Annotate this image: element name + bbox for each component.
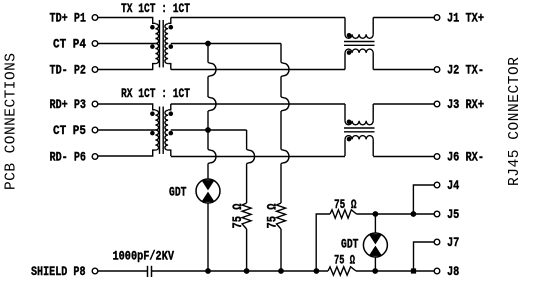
svg-text:75 Ω: 75 Ω bbox=[334, 253, 355, 268]
junction node RX-CT / rail A bbox=[205, 127, 211, 133]
wire J7 stub bbox=[414, 242, 435, 271]
svg-text:GDT: GDT bbox=[169, 185, 187, 200]
pin label J5 bbox=[447, 207, 459, 222]
wire top lead out of T1-TX secondary bbox=[168, 18, 171, 24]
terminal P6 bbox=[92, 154, 98, 160]
junction node R1 / ground bbox=[244, 268, 250, 274]
pin label TD+ P1 bbox=[50, 11, 87, 26]
svg-text:TD+ P1: TD+ P1 bbox=[50, 11, 87, 26]
junction node R3/GDT2 bbox=[373, 211, 379, 217]
svg-text:75 Ω: 75 Ω bbox=[264, 203, 279, 228]
terminal P5 bbox=[92, 127, 98, 133]
wire rail A segment bbox=[207, 111, 209, 150]
junction node rail A / ground bbox=[205, 268, 211, 274]
transformer T2-RX primary phase dot lower bbox=[150, 131, 155, 136]
wire GDT1 to ground rail bbox=[207, 203, 209, 271]
svg-text:TX 1CT : 1CT: TX 1CT : 1CT bbox=[121, 1, 190, 16]
wire resistor R2 to ground rail bbox=[280, 229, 282, 271]
svg-text:J6 RX-: J6 RX- bbox=[447, 150, 484, 165]
wire SHIELD P8 to capacitor C1 bbox=[98, 270, 147, 272]
pin label J4 bbox=[447, 178, 459, 193]
transformer T2-RX secondary winding upper half bbox=[165, 110, 168, 130]
transformer T1-TX primary phase dot upper bbox=[150, 25, 155, 30]
pin label TD- P2 bbox=[50, 63, 87, 78]
terminal P3 bbox=[92, 101, 98, 107]
pin label J2 TX- bbox=[447, 63, 484, 78]
wire rail B segment bbox=[280, 111, 282, 150]
wire RX secondary bottom to choke L2 bbox=[171, 156, 345, 158]
wire hop rail A over RD- row bbox=[208, 150, 216, 164]
capacitor C1 plates bbox=[148, 266, 152, 277]
svg-text:J1 TX+: J1 TX+ bbox=[447, 11, 484, 26]
resistor R2 75ohm bbox=[277, 203, 286, 229]
svg-text:J5: J5 bbox=[447, 207, 459, 222]
label R2 75 &#937; (rotated) bbox=[264, 203, 279, 228]
transformer T1-TX secondary phase dot upper bbox=[169, 25, 174, 30]
svg-text:CT P4: CT P4 bbox=[53, 37, 86, 52]
label GDT1 bbox=[169, 185, 187, 200]
pin label J3 RX+ bbox=[447, 97, 484, 112]
junction node GDT2 / ground bbox=[372, 268, 378, 274]
wire hop rail A over TD- row bbox=[208, 63, 216, 77]
choke L2 core bbox=[344, 128, 375, 132]
transformer T2-RX primary winding upper half bbox=[155, 110, 158, 130]
pin label CT P5 bbox=[53, 123, 86, 138]
svg-text:SHIELD P8: SHIELD P8 bbox=[31, 264, 86, 279]
label RJ45 CONNECTOR (right, rotated) bbox=[507, 57, 523, 186]
transformer T1-TX primary phase dot lower bbox=[150, 44, 155, 49]
transformer T1-TX core bbox=[160, 20, 164, 67]
wire TX secondary top to choke L1 bbox=[171, 17, 345, 19]
svg-text:RD+ P3: RD+ P3 bbox=[50, 97, 87, 112]
wire right lead up out of L1 top winding bbox=[372, 18, 374, 35]
wire rail C to resistor R1 bbox=[246, 164, 248, 204]
choke L1 bottom winding bbox=[345, 49, 373, 53]
svg-text:J8: J8 bbox=[447, 264, 459, 279]
wire center tap lead into T1-TX primary bbox=[98, 43, 155, 45]
svg-text:75 Ω: 75 Ω bbox=[230, 203, 245, 228]
choke L2 bottom winding bbox=[345, 136, 373, 140]
choke L1 top winding phase dot bbox=[347, 33, 352, 38]
transformer T2-RX secondary phase dot lower bbox=[169, 131, 174, 136]
wire left lead down out of L2 bottom winding bbox=[344, 139, 346, 156]
wire rail B segment bbox=[280, 77, 282, 98]
pin label SHIELD P8 bbox=[31, 264, 86, 279]
wire rail B to resistor R2 bbox=[280, 164, 282, 204]
terminal J3 bbox=[434, 101, 440, 107]
terminal J2 bbox=[434, 67, 440, 73]
terminal J4 bbox=[434, 182, 440, 188]
wire hop rail B over RD+ row bbox=[281, 97, 289, 111]
wire J5 row bbox=[357, 213, 435, 215]
label R3 75 &#937; bbox=[334, 197, 357, 212]
wire rail C upper segment bbox=[246, 130, 248, 150]
wire hop rail C over RD- row bbox=[247, 150, 255, 164]
wire RX secondary center tap bbox=[171, 129, 247, 131]
svg-text:RD- P6: RD- P6 bbox=[50, 150, 87, 165]
wire rail B upper segment bbox=[280, 44, 282, 63]
wire top lead out of T2-RX secondary bbox=[168, 104, 171, 110]
label GDT2 bbox=[341, 237, 359, 252]
junction node J4/J5 bbox=[411, 211, 417, 217]
choke L2 top winding bbox=[345, 121, 373, 125]
wire P-bottom lead out of T2-RX primary bbox=[98, 150, 155, 156]
wire P-top lead into T2-RX primary bbox=[98, 104, 155, 110]
transformer T1-TX primary winding upper half bbox=[155, 24, 158, 44]
wire choke L1 bottom to J2 bbox=[373, 69, 434, 71]
wire rail B corner from TX CT bbox=[246, 129, 248, 131]
label PCB CONNECTIONS (left, rotated) bbox=[4, 53, 20, 190]
wire right lead down out of L2 bottom winding bbox=[372, 139, 374, 156]
terminal P2 bbox=[92, 67, 98, 73]
gas discharge tube GDT1 bbox=[196, 179, 220, 203]
transformer T2-RX primary phase dot upper bbox=[150, 111, 155, 116]
transformer T1-TX primary winding lower half bbox=[155, 44, 158, 64]
svg-text:J4: J4 bbox=[447, 178, 459, 193]
wire choke L2 bottom to J6 bbox=[373, 156, 434, 158]
wire J5 row left of resistor bbox=[316, 214, 330, 271]
svg-text:J2 TX-: J2 TX- bbox=[447, 63, 484, 78]
pin label J7 bbox=[447, 235, 459, 250]
wire ground rail capacitor to resistor R4 bbox=[152, 270, 328, 272]
transformer T1-TX secondary winding upper half bbox=[165, 24, 168, 44]
gas discharge tube GDT2 bbox=[363, 233, 387, 257]
pin label J8 bbox=[447, 264, 459, 279]
svg-text:J7: J7 bbox=[447, 235, 459, 250]
label RX 1CT : 1CT bbox=[121, 86, 190, 101]
transformer T2-RX secondary winding lower half bbox=[165, 130, 168, 150]
junction node J5-branch / ground bbox=[314, 268, 320, 274]
wire J4 stub bbox=[413, 185, 434, 214]
wire center tap lead into T2-RX primary bbox=[98, 129, 155, 131]
svg-text:RX 1CT : 1CT: RX 1CT : 1CT bbox=[121, 86, 190, 101]
wire RX secondary top to choke L2 bbox=[171, 103, 345, 105]
pin label J1 TX+ bbox=[447, 11, 484, 26]
label TX 1CT : 1CT bbox=[121, 1, 190, 16]
junction node TX-CT / rail A bbox=[205, 41, 211, 47]
wire hop rail B over RD- row bbox=[281, 150, 289, 164]
wire P-bottom lead out of T1-TX primary bbox=[98, 64, 155, 70]
choke L1 core bbox=[344, 42, 375, 46]
pin label RD+ P3 bbox=[50, 97, 87, 112]
svg-text:J3 RX+: J3 RX+ bbox=[447, 97, 484, 112]
choke L1 bottom winding phase dot bbox=[347, 50, 352, 55]
wire TX secondary bottom to choke L1 bbox=[171, 69, 345, 71]
transformer T2-RX secondary phase dot upper bbox=[169, 111, 174, 116]
junction node J7/J8 (square) bbox=[411, 268, 416, 273]
transformer T2-RX primary winding lower half bbox=[155, 130, 158, 150]
wire left lead down into L1 top winding bbox=[344, 18, 346, 35]
terminal P4 bbox=[92, 41, 98, 47]
terminal J1 bbox=[434, 15, 440, 21]
terminal P8 bbox=[92, 268, 98, 274]
resistor R4 75ohm bbox=[328, 267, 356, 275]
pin label CT P4 bbox=[53, 37, 86, 52]
terminal P1 bbox=[92, 15, 98, 21]
resistor R1 75ohm bbox=[242, 203, 251, 229]
transformer T2-RX core bbox=[160, 107, 164, 154]
svg-text:CT P5: CT P5 bbox=[53, 123, 86, 138]
label R1 75 &#937; (rotated) bbox=[230, 203, 245, 228]
pin label RD- P6 bbox=[50, 150, 87, 165]
choke L1 top winding bbox=[345, 34, 373, 38]
svg-text:GDT: GDT bbox=[341, 237, 359, 252]
terminal J7 bbox=[434, 239, 440, 245]
wire ground rail resistor R4 to J8 bbox=[356, 270, 434, 272]
wire hop rail A over RD+ row bbox=[208, 97, 216, 111]
wire resistor R1 to ground rail bbox=[246, 229, 248, 271]
wire hop rail B over TD- row bbox=[281, 63, 289, 77]
wire rail A segment bbox=[207, 77, 209, 98]
wire GDT2 top lead bbox=[374, 214, 376, 233]
svg-text:TD- P2: TD- P2 bbox=[50, 63, 87, 78]
wire left lead down into L2 top winding bbox=[344, 104, 346, 121]
wire bottom lead out of T1-TX secondary bbox=[168, 64, 171, 70]
terminal J5 bbox=[434, 211, 440, 217]
wire P-top lead into T1-TX primary bbox=[98, 18, 155, 24]
transformer T1-TX secondary phase dot lower bbox=[169, 44, 174, 49]
label R4 75 &#937; bbox=[334, 253, 355, 268]
terminal J6 bbox=[434, 154, 440, 160]
transformer T1-TX secondary winding lower half bbox=[165, 44, 168, 64]
svg-text:RJ45 CONNECTOR: RJ45 CONNECTOR bbox=[507, 57, 523, 186]
wire rail A upper segment bbox=[207, 44, 209, 63]
capacitor C1 label 1000pF/2KV bbox=[113, 249, 175, 264]
wire choke L1 top to J1 bbox=[373, 17, 434, 19]
svg-text:PCB CONNECTIONS: PCB CONNECTIONS bbox=[4, 53, 20, 190]
wire choke L2 top to J3 bbox=[373, 103, 434, 105]
svg-text:1000pF/2KV: 1000pF/2KV bbox=[113, 249, 175, 264]
wire right lead down out of L1 bottom winding bbox=[372, 53, 374, 70]
terminal J8 bbox=[434, 268, 440, 274]
wire rail A to GDT1 bbox=[207, 164, 209, 180]
resistor R3 75ohm bbox=[330, 210, 357, 218]
svg-text:75 Ω: 75 Ω bbox=[334, 197, 357, 212]
wire TX secondary center tap bbox=[171, 43, 281, 45]
wire right lead up out of L2 top winding bbox=[372, 104, 374, 121]
junction node R2 / ground bbox=[278, 268, 284, 274]
wire GDT2 bottom lead bbox=[374, 257, 376, 271]
pin label J6 RX- bbox=[447, 150, 484, 165]
wire bottom lead out of T2-RX secondary bbox=[168, 150, 171, 156]
wire left lead down out of L1 bottom winding bbox=[344, 53, 346, 70]
choke L2 bottom winding phase dot bbox=[347, 137, 352, 142]
choke L2 top winding phase dot bbox=[347, 120, 352, 125]
